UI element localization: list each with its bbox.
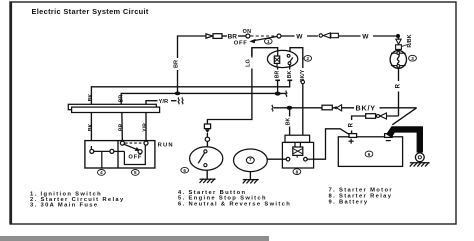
svg-text:7. Starter Motor: 7. Starter Motor — [329, 187, 393, 193]
label R (rotated, on riser) — [348, 120, 356, 131]
svg-text:Y/R: Y/R — [143, 123, 149, 132]
ground (switch 6) — [200, 179, 216, 183]
label R (rotated, on wire) — [395, 81, 403, 92]
starter circuit relay 2: top-right link to BK/Y — [290, 48, 303, 56]
svg-text:R: R — [349, 122, 355, 127]
label BK/Y (rotated) — [299, 68, 307, 84]
ground hatching (battery) — [410, 162, 430, 166]
30A main fuse 3: barrel — [390, 50, 406, 68]
tick connector on BK pigtail — [287, 79, 292, 81]
svg-text:2: 2 — [307, 56, 310, 61]
switch 6 contacts and lever — [198, 150, 207, 167]
legend column 3 — [329, 187, 393, 205]
wire: R riser from battery + to fuse feed line — [352, 116, 399, 134]
label Y/R with dash and double squiggle — [159, 98, 184, 106]
bottom gray scan bar — [0, 236, 269, 241]
wire: R from main fuse down to battery feed line — [398, 68, 400, 116]
svg-text:9: 9 — [368, 152, 371, 157]
svg-text:W: W — [296, 34, 303, 41]
wire: BK/Y from relay 2 down to starter relay coil — [302, 56, 304, 135]
circled 6 — [181, 167, 189, 173]
stop switch 5 lever arrow to OFF — [124, 144, 140, 151]
wire: BK pigtail from relay 2 turning left into BK bus — [91, 67, 289, 104]
label BR (rotated, on riser) — [172, 58, 180, 70]
wire: BK drop through connector bar to starter button — [90, 104, 92, 151]
svg-text:1: 1 — [267, 39, 270, 44]
svg-text:BK: BK — [88, 124, 94, 132]
button 4 contacts — [90, 149, 114, 153]
starter relay 8: coil — [293, 142, 303, 157]
svg-text:BK/Y: BK/Y — [356, 104, 376, 113]
battery + terminal block — [349, 134, 357, 138]
circled 4 — [98, 170, 106, 176]
starter motor 7: body — [234, 149, 268, 172]
svg-text:5: 5 — [134, 170, 137, 175]
svg-text:BK: BK — [286, 118, 292, 126]
button 4 wiring: contact-to-contact bar and stub — [91, 146, 124, 168]
svg-text:Electric Starter System Circui: Electric Starter System Circuit — [32, 7, 149, 16]
starter relay 8: contacts — [286, 157, 313, 161]
wire: BR riser from ignition feed corner down to BR bus — [178, 36, 207, 93]
junction dot BK on BK/Y bus — [287, 106, 293, 110]
svg-text:6. Neutral & Reverse Switch: 6. Neutral & Reverse Switch — [178, 202, 291, 208]
label LG (rotated) — [245, 58, 253, 69]
starter circuit relay 2: body ellipse — [267, 50, 297, 67]
starter button 4 / engine stop switch 5 outer box — [85, 141, 155, 168]
wire: BK/Y diagonal to battery ground node — [392, 108, 416, 125]
svg-text:BR: BR — [275, 71, 281, 79]
wire: motor to starter relay — [267, 158, 286, 160]
junction dot W / main-fuse drop — [396, 34, 400, 38]
relay 2 coil — [274, 51, 279, 67]
junction dot: ignition BR riser on bus — [175, 92, 181, 96]
wire: starter relay output up-over to battery + — [314, 129, 350, 159]
left frame thick edge — [10, 2, 12, 224]
wire: BR drop through connector bar to stop switch — [121, 104, 124, 143]
plus sign — [349, 139, 354, 144]
circled 9 — [365, 151, 373, 157]
stop switch 5 dashed throw — [125, 142, 144, 144]
stop switch 5 OFF contact — [138, 150, 142, 154]
stop switch 5 U-link wire — [124, 146, 145, 165]
ignition switch 1: lever with arrow to OFF — [249, 36, 277, 43]
ground (motor) — [243, 179, 259, 183]
svg-text:3. 30A Main Fuse: 3. 30A Main Fuse — [30, 202, 98, 208]
label BK (rotated) — [286, 70, 294, 80]
wire: R/BK drop from W run to main fuse — [398, 36, 400, 51]
wire: BK/Y ground bus with left squiggle — [272, 105, 417, 112]
wire: BK from BK/Y bus down to starter relay coil — [289, 108, 291, 135]
svg-text:LG: LG — [246, 59, 252, 67]
svg-text:BK: BK — [88, 94, 94, 102]
bullet connector on BK/Y wire — [301, 80, 304, 83]
svg-text:Y/R: Y/R — [159, 99, 169, 105]
wire: W run from switch to main fuse drop — [281, 35, 398, 37]
fuse connector on battery feed line — [366, 113, 387, 119]
svg-text:BR: BR — [119, 124, 125, 132]
circled 5 — [131, 170, 139, 176]
neutral & reverse switch 6: body — [190, 147, 223, 170]
ground bolt (battery) — [415, 153, 424, 162]
svg-text:RUN: RUN — [158, 142, 174, 148]
starter relay 8: cap — [285, 135, 310, 142]
wire: motor ground riser — [249, 172, 251, 179]
wire: to neutral switch with bullet — [205, 133, 209, 147]
starter circuit relay 2: top-left link to LG — [252, 48, 278, 56]
ignition switch 1: circled 1 — [265, 39, 273, 45]
label BR (rotated) — [274, 70, 282, 80]
ignition switch 1: dashed throw — [251, 35, 277, 37]
label W (bold, second) — [361, 31, 374, 41]
svg-text:OFF: OFF — [128, 154, 142, 160]
label BK/Y (bold, on wire) — [354, 103, 380, 113]
junction dot: relay BR pigtail on bus — [275, 92, 281, 96]
svg-text:4: 4 — [100, 170, 103, 175]
divider between box 4 and box 5 — [117, 141, 119, 168]
circled 8 — [293, 169, 301, 175]
squiggle end of BR bus — [286, 91, 287, 97]
fuse connector on BK/Y bus — [322, 105, 342, 111]
svg-text:7: 7 — [249, 157, 252, 163]
ignition switch 1: right contact — [277, 34, 281, 38]
wire: Y/R stub off bar top to off-page — [146, 101, 158, 105]
starter relay 8: body box — [282, 142, 313, 168]
minus sign — [386, 140, 391, 142]
circled 2 — [304, 56, 312, 62]
label R/BK (rotated) with leader — [402, 34, 413, 47]
wire: BR bus — [121, 93, 286, 104]
svg-text:3: 3 — [411, 56, 414, 61]
svg-text:OFF: OFF — [234, 40, 248, 46]
connector (triangle+box) on ignition feed — [206, 34, 227, 39]
svg-text:9. Battery: 9. Battery — [329, 200, 369, 206]
fuse element zigzag — [397, 52, 400, 55]
svg-text:BR: BR — [228, 33, 238, 40]
svg-text:R: R — [395, 83, 401, 88]
wire: LG from relay 2 down-left to neutral switch connector — [207, 48, 252, 124]
svg-text:R/BK: R/BK — [407, 34, 413, 47]
circled 3 — [409, 55, 417, 61]
svg-text:BR: BR — [118, 95, 124, 103]
neutral switch connector: arrow — [205, 129, 210, 133]
relay 2 contact set — [287, 54, 293, 67]
legend column 2 — [178, 190, 291, 208]
ignition switch 1: left contact — [246, 34, 250, 38]
connector (circle+triangle+box) on W run — [318, 32, 339, 40]
connector bar (multi-pin connector pair) — [68, 104, 159, 112]
thick battery - cable to frame ground — [389, 129, 420, 152]
svg-text:W: W — [362, 34, 369, 41]
battery - terminal block — [385, 134, 393, 138]
stop switch 5 contacts BR / Y-R — [120, 141, 148, 145]
neutral switch connector: square — [204, 124, 210, 129]
wire stub to switch contact — [238, 35, 246, 37]
svg-text:BK: BK — [287, 71, 293, 79]
battery 9: case — [338, 137, 402, 167]
svg-text:6: 6 — [183, 168, 186, 173]
circled 7 inside motor — [246, 157, 254, 164]
legend column 1 — [30, 191, 125, 208]
label W (bold, on wire) — [295, 31, 308, 41]
tick connector on BR pigtail — [275, 79, 280, 81]
wire: Y/R drop from connector bar to stop switch — [145, 110, 147, 143]
connector (triangle+box) on R/BK drop — [396, 39, 402, 49]
wire: switch 6 ground riser — [206, 170, 208, 179]
label BK (rotated) — [285, 117, 293, 127]
svg-text:8: 8 — [296, 169, 299, 174]
svg-text:BR: BR — [173, 60, 179, 68]
svg-text:8. Starter Relay: 8. Starter Relay — [329, 194, 393, 200]
wire: BR pigtail from relay 2 to BR bus dot — [277, 67, 279, 93]
